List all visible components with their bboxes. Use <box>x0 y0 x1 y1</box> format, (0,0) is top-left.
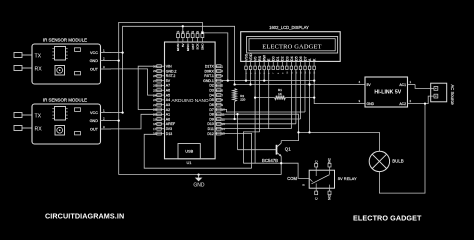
svg-text:RST.2: RST.2 <box>166 74 176 78</box>
svg-text:8: 8 <box>278 73 280 74</box>
wire AC1 to connector <box>415 85 434 89</box>
wire 5V vertical to IR2 VCC <box>122 53 124 113</box>
svg-text:CIRCUITDIAGRAMS.IN: CIRCUITDIAGRAMS.IN <box>45 212 124 221</box>
svg-text:18: 18 <box>153 122 157 126</box>
wire ICSP GND to Arduino GND.1 column <box>202 33 227 81</box>
svg-text:AC1: AC1 <box>399 83 406 87</box>
wire V0 to R1 left <box>255 97 274 99</box>
svg-text:2: 2 <box>221 69 223 73</box>
svg-text:6: 6 <box>221 88 223 92</box>
wire IR1 GND stub <box>111 60 119 62</box>
svg-text:A7: A7 <box>166 84 170 88</box>
svg-text:D12: D12 <box>207 132 213 136</box>
ICSP pin 5V <box>182 37 184 42</box>
svg-text:27: 27 <box>153 79 157 83</box>
svg-text:NC: NC <box>328 157 332 162</box>
pin D10 (13) <box>215 123 221 125</box>
bulb lamp <box>369 151 404 171</box>
svg-text:VCC: VCC <box>90 51 98 55</box>
wire RS route down <box>243 132 259 163</box>
svg-text:5: 5 <box>221 84 223 88</box>
svg-text:A3: A3 <box>166 103 170 107</box>
ICSP pin SCK <box>197 37 199 42</box>
Arduino Nano U1 <box>153 31 225 165</box>
svg-text:23: 23 <box>153 98 157 102</box>
svg-text:3V3: 3V3 <box>166 127 172 131</box>
svg-text:16: 16 <box>153 132 157 136</box>
svg-text:A1: A1 <box>166 113 170 117</box>
wire LCD E down <box>268 70 270 129</box>
svg-text:RX: RX <box>35 67 43 73</box>
wire D8 row to collector loop <box>221 114 299 140</box>
pin A0 (19) <box>157 118 165 120</box>
wire bulb bottom loop to AC2 <box>379 104 425 194</box>
wire ICSP 5V stub <box>182 26 184 34</box>
svg-text:A2: A2 <box>166 108 170 112</box>
svg-text:D10: D10 <box>207 122 213 126</box>
svg-text:D2: D2 <box>209 84 214 88</box>
pin A7 (26) <box>157 84 165 86</box>
ICSP pin GND <box>201 37 203 42</box>
svg-text:7: 7 <box>273 73 275 74</box>
svg-text:10: 10 <box>287 72 289 74</box>
svg-text:RS: RS <box>258 55 262 61</box>
ICSP pin MISO <box>187 37 189 42</box>
pin 3V3 (17) <box>157 128 165 130</box>
AC source connector <box>415 83 455 105</box>
svg-text:1K: 1K <box>278 92 282 96</box>
svg-text:8: 8 <box>221 98 223 102</box>
svg-text:COM: COM <box>287 176 297 181</box>
wire GND vertical down to bottom rail <box>118 121 120 175</box>
pin 5V (27) <box>157 80 165 82</box>
svg-text:220: 220 <box>240 98 245 102</box>
wire D10 to LCD D5 <box>221 123 296 125</box>
svg-text:SCK: SCK <box>196 44 200 50</box>
wire bottom GND rail <box>119 174 282 176</box>
svg-text:3: 3 <box>221 74 223 78</box>
wire IR2 VCC stub <box>111 112 123 114</box>
wire IR2 GND stub <box>111 120 119 122</box>
wire GND vertical to IR2 GND <box>118 61 120 121</box>
pin D0RX (2) <box>215 70 221 72</box>
resistor R2 220 <box>233 89 246 102</box>
wire LCD D5 down <box>295 70 297 124</box>
wire D13 to lower rail <box>144 134 251 168</box>
svg-text:5V: 5V <box>367 83 372 87</box>
wire collector node to bulb top <box>299 132 380 151</box>
svg-text:D7: D7 <box>209 108 214 112</box>
svg-text:IR SENSOR MODULE: IR SENSOR MODULE <box>43 38 87 43</box>
wire D12 to rail junction <box>221 133 252 168</box>
svg-text:7: 7 <box>221 93 223 97</box>
wire GND rect top-left to ICSP GND pin <box>119 22 203 60</box>
svg-text:RW: RW <box>263 54 267 61</box>
svg-text:GND: GND <box>193 183 205 189</box>
IR sensor module 2 <box>14 98 111 145</box>
svg-text:D4: D4 <box>290 56 294 61</box>
wire AC2 to connector <box>425 96 434 104</box>
svg-text:V0: V0 <box>253 57 257 61</box>
pin GND.2 (29) <box>157 70 165 72</box>
wire 5V rail to HI-LINK 5V pin <box>235 84 357 86</box>
svg-text:GND.2: GND.2 <box>166 69 177 73</box>
svg-text:TX: TX <box>35 54 42 60</box>
svg-text:29: 29 <box>153 69 157 73</box>
wire LCD RW to GND row <box>263 70 265 81</box>
svg-text:19: 19 <box>153 117 157 121</box>
svg-text:D5: D5 <box>294 56 298 61</box>
svg-text:VIN: VIN <box>166 65 172 69</box>
wire IR1 VCC stub <box>111 52 123 54</box>
svg-text:Q1: Q1 <box>285 147 291 152</box>
pin D13 (16) <box>157 133 165 135</box>
svg-text:VCC: VCC <box>90 111 98 115</box>
pin D3 (6) <box>215 89 221 91</box>
svg-text:D6: D6 <box>209 103 214 107</box>
svg-text:A4: A4 <box>166 98 170 102</box>
ICSP pin RST <box>192 37 194 42</box>
wire R1 right to K column <box>286 97 315 99</box>
svg-text:GND: GND <box>201 43 205 51</box>
pin A5 (24) <box>157 94 165 96</box>
svg-text:BC547B: BC547B <box>262 158 278 163</box>
svg-text:AREF: AREF <box>166 122 175 126</box>
svg-text:MOSI: MOSI <box>176 43 180 51</box>
HI-LINK 5V module <box>357 77 425 107</box>
svg-text:AC Source: AC Source <box>450 85 455 106</box>
svg-text:D3: D3 <box>209 89 214 93</box>
svg-text:D0: D0 <box>272 56 276 61</box>
pin VIN (30) <box>157 65 165 67</box>
pin A6 (25) <box>157 89 165 91</box>
svg-text:ELECTRO GADGET: ELECTRO GADGET <box>353 214 422 223</box>
wire D9 to LCD D6 <box>221 118 301 120</box>
pin D6 (9) <box>215 104 221 106</box>
svg-text:GND.1: GND.1 <box>203 79 214 83</box>
svg-text:OUT: OUT <box>90 128 99 132</box>
svg-text:D2: D2 <box>281 56 285 61</box>
svg-text:25: 25 <box>153 88 157 92</box>
pin RST.2 (28) <box>157 75 165 77</box>
svg-text:D3: D3 <box>285 56 289 61</box>
svg-text:5V RELAY: 5V RELAY <box>338 176 357 181</box>
svg-text:D0RX: D0RX <box>204 69 214 73</box>
pin A4 (23) <box>157 99 165 101</box>
svg-text:RST: RST <box>191 43 195 49</box>
svg-text:RST.1: RST.1 <box>204 74 214 78</box>
wire D7 to LCD D7 <box>221 109 305 112</box>
svg-text:1602_LCD_DISPLAY: 1602_LCD_DISPLAY <box>269 25 309 30</box>
svg-text:D1TX: D1TX <box>205 65 215 69</box>
wire emitter node to relay COM <box>243 163 309 178</box>
svg-text:BULB: BULB <box>392 158 404 163</box>
svg-text:OUT: OUT <box>90 68 99 72</box>
svg-text:MISO: MISO <box>186 43 190 51</box>
pin D7 (10) <box>215 108 221 110</box>
svg-text:A5: A5 <box>166 93 170 97</box>
svg-text:A0: A0 <box>166 117 170 121</box>
wire IR2 OUT to A1 <box>111 114 157 129</box>
wire LCD D4 down <box>290 70 292 129</box>
ground symbol <box>193 173 205 188</box>
svg-text:D7: D7 <box>303 56 307 61</box>
svg-text:NO: NO <box>328 194 332 199</box>
wire LCD V0 down <box>254 70 256 163</box>
pin D5 (8) <box>215 99 221 101</box>
svg-text:D11: D11 <box>208 127 214 131</box>
wire LCD D7 down <box>304 70 306 112</box>
svg-text:D5: D5 <box>209 98 214 102</box>
svg-text:D8: D8 <box>209 113 214 117</box>
pin A2 (21) <box>157 108 165 110</box>
pin AREF (18) <box>157 123 165 125</box>
svg-text:9: 9 <box>282 73 284 74</box>
svg-text:17: 17 <box>153 127 157 131</box>
svg-text:D4: D4 <box>209 93 214 97</box>
wire D8 branch to transistor base <box>237 114 239 150</box>
relay 5V <box>287 157 357 199</box>
svg-text:VDD: VDD <box>249 53 253 61</box>
wire LCD RS down <box>259 70 261 132</box>
USB connector <box>178 144 200 159</box>
svg-text:D13: D13 <box>166 132 172 136</box>
svg-text:5V: 5V <box>166 79 171 83</box>
svg-text:26: 26 <box>153 84 157 88</box>
svg-text:AC2: AC2 <box>399 102 406 106</box>
resistor R1 1K <box>275 88 286 99</box>
svg-text:ARDUINO NANO: ARDUINO NANO <box>171 98 209 104</box>
svg-text:RX: RX <box>35 127 43 133</box>
wire IR1 OUT to A5 <box>111 69 157 95</box>
pin RST.1 (3) <box>215 75 221 77</box>
wire VIN to A2 link <box>138 66 157 109</box>
svg-text:HI-LINK 5V: HI-LINK 5V <box>374 90 401 96</box>
wire LCD K to GND and HI-LINK GND <box>314 70 357 104</box>
svg-text:28: 28 <box>153 74 157 78</box>
wire R2 bottom to D9 row <box>234 102 236 120</box>
svg-text:TX: TX <box>35 114 42 120</box>
svg-text:D1: D1 <box>276 56 280 61</box>
ICSP pin MOSI <box>177 37 179 42</box>
pin D9 (12) <box>215 118 221 120</box>
wire LCD VSS to GND row <box>245 70 247 81</box>
wire 5V rect top to R2 top <box>123 26 235 84</box>
svg-text:1: 1 <box>221 64 223 68</box>
svg-text:USB: USB <box>185 149 193 154</box>
IR sensor module 1 <box>14 38 111 85</box>
svg-text:A6: A6 <box>166 89 170 93</box>
svg-text:GND: GND <box>367 102 375 106</box>
svg-text:9: 9 <box>221 103 223 107</box>
pin D12 (15) <box>215 133 221 135</box>
wire LCD D6 down <box>299 70 301 119</box>
pin D2 (5) <box>215 84 221 86</box>
pin D11 (14) <box>215 128 221 130</box>
svg-text:VSS: VSS <box>244 53 248 61</box>
svg-text:5V: 5V <box>181 44 185 48</box>
pin GND.1 (4) <box>215 80 221 82</box>
wire LCD VDD to 5V rail <box>250 70 252 85</box>
wire D11 to LCD D4 <box>221 128 292 130</box>
LCD 1602 display <box>241 25 341 74</box>
transistor Q1 BC547B <box>238 141 292 175</box>
svg-text:D9: D9 <box>209 117 214 121</box>
wire GND row GND.1 to LCD VSS RW K <box>221 80 315 82</box>
svg-text:GND: GND <box>90 59 99 63</box>
svg-text:U1: U1 <box>187 160 192 165</box>
svg-text:22: 22 <box>153 103 157 107</box>
pin A3 (22) <box>157 104 165 106</box>
svg-text:ELECTRO GADGET: ELECTRO GADGET <box>262 43 321 50</box>
pin D8 (11) <box>215 113 221 115</box>
svg-text:D6: D6 <box>299 56 303 61</box>
svg-text:GND: GND <box>90 119 99 123</box>
wire LCD A to 5V rail and bulb line <box>309 70 311 133</box>
pin D1TX (1) <box>215 65 221 67</box>
pin A1 (20) <box>157 113 165 115</box>
svg-text:IR SENSOR MODULE: IR SENSOR MODULE <box>43 98 87 103</box>
pin D4 (7) <box>215 94 221 96</box>
